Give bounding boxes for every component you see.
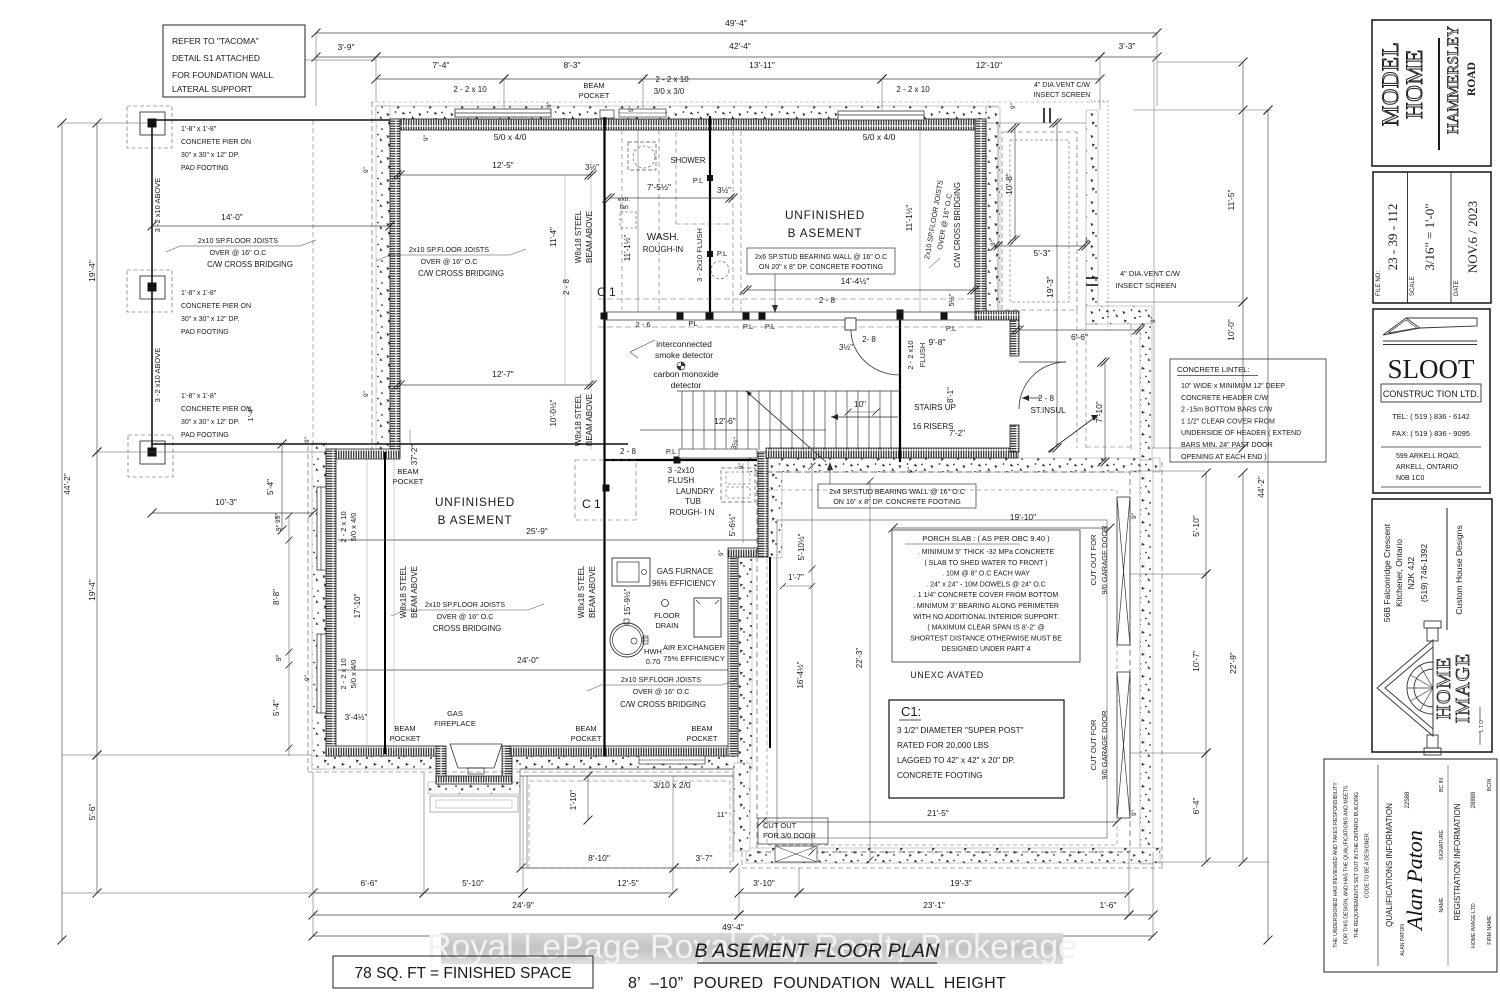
svg-text:ST.INSUL: ST.INSUL [1030,406,1066,415]
post C1 top [601,313,608,320]
svg-text:CONCRETE PIER ON: CONCRETE PIER ON [181,406,251,413]
svg-text:2x10 SP.FLOOR JOISTS: 2x10 SP.FLOOR JOISTS [409,245,489,254]
title block: file/scale/date [1373,172,1491,303]
svg-text:N2K 4J2: N2K 4J2 [1406,556,1416,589]
svg-text:7'-4": 7'-4" [433,60,450,70]
st.insul door leaf [1019,361,1066,363]
concrete lintel note box [1170,359,1326,462]
dim 11-5 right [1242,62,1244,302]
svg-text:3'-10": 3'-10" [753,878,775,888]
extension line x1154 [1153,62,1155,448]
dim 44-2 left [61,123,63,940]
svg-text:44'-2": 44'-2" [1256,476,1266,498]
svg-text:CONCRETE PIER ON: CONCRETE PIER ON [181,139,251,146]
wash dashed partition [658,130,660,310]
bearing wall posts [677,313,684,320]
svg-text:WITH NO ADDITIONAL INTERIOR SU: WITH NO ADDITIONAL INTERIOR SUPPORT. [913,614,1059,621]
dim 12-6 stairs [640,429,826,431]
svg-text:C/W CROSS BRIDGING: C/W CROSS BRIDGING [207,260,293,269]
footing band right jog [768,458,782,558]
svg-text:49'-4": 49'-4" [725,18,747,28]
svg-text:2 - 2 x 10: 2 - 2 x 10 [339,658,348,689]
svg-text:BEAM ABOVE: BEAM ABOVE [585,394,594,446]
footing band porch bottom [1086,306,1152,324]
dim 12-7 [400,384,592,386]
footing band south wall / garage top [748,458,1160,472]
svg-text:CONCRETE FOOTING: CONCRETE FOOTING [897,771,983,780]
stair door arc (2-8) [845,318,856,330]
window 5/0x4/0 top right [838,111,924,120]
svg-text:PAD FOOTING: PAD FOOTING [181,329,229,336]
svg-text:SIGNATURE: SIGNATURE [1439,830,1445,860]
svg-text:1'-10": 1'-10" [569,790,578,811]
svg-text:TEL: ( 519 ) 836 - 6142: TEL: ( 519 ) 836 - 6142 [1392,412,1470,421]
svg-text:P.L: P.L [717,249,727,258]
svg-text:22'-9": 22'-9" [1228,652,1238,674]
laundry tub dashed symbol [721,468,755,502]
top extension verticals [315,33,317,106]
svg-text:11'-4": 11'-4" [549,227,558,247]
dim row 7-4 8-3 13-11 12-10 [376,78,504,80]
svg-text:19'-4": 19'-4" [87,579,97,601]
svg-text:. MINIMUM 5" THICK -32 MPa CO: . MINIMUM 5" THICK -32 MPa CONCRETE [918,549,1054,556]
arrow from note box [774,274,776,312]
svg-text:9": 9" [546,101,553,108]
svg-text:6'-6": 6'-6" [1071,332,1088,342]
svg-text:24'-0": 24'-0" [517,655,539,665]
2x4 bearing wall note box [818,484,976,508]
svg-text:9": 9" [1085,236,1092,243]
svg-text:9": 9" [363,390,370,397]
svg-text:IMAGE: IMAGE [1452,653,1474,724]
svg-text:HWH: HWH [644,647,662,656]
svg-text:11": 11" [717,810,728,819]
svg-text:ON 20" x 8" DP. CONCRET: ON 20" x 8" DP. CONCRETE FOOTING [759,264,883,271]
flush beam outline right of post [679,449,757,458]
svg-text:extr.: extr. [618,196,630,203]
svg-text:2x10 SP.FLOOR JOISTS: 2x10 SP.FLOOR JOISTS [621,675,701,684]
svg-text:POCKET: POCKET [579,91,610,100]
svg-text:44'-2": 44'-2" [62,473,72,495]
footing band fireplace [428,782,520,794]
concrete pier 2 [127,270,172,312]
garage inner rect [777,520,1107,838]
svg-text:3/10 x 2/0: 3/10 x 2/0 [653,780,691,790]
svg-text:BCIN: BCIN [1487,779,1493,792]
svg-text:. 24" x 24" - 10M DOWELS @ 24": . 24" x 24" - 10M DOWELS @ 24" O.C [926,581,1046,588]
svg-text:CONCRETE PIER ON: CONCRETE PIER ON [181,303,251,310]
svg-text:BEAM ABOVE: BEAM ABOVE [588,566,597,618]
footing band garage bottom [746,848,1160,863]
concrete pier 3 [128,435,173,477]
svg-text:16'-4½": 16'-4½" [796,661,805,688]
svg-text:REGISTRATION INFORMATION: REGISTRATION INFORMATION [1453,803,1462,920]
svg-text:8'-1": 8'-1" [946,387,955,403]
footing band bottom left [312,756,444,769]
window left wall upper (5/0x4/0) [317,487,326,570]
dim 8-10 3-7 row [521,867,674,869]
stairwell treads [677,390,900,392]
svg-text:9'-8": 9'-8" [929,337,946,347]
dim 6-6 entry [1019,329,1140,331]
svg-text:QUALIFICATIONS INFORMATION: QUALIFICATIONS INFORMATION [1385,803,1394,927]
garage door X upper [1117,497,1130,645]
svg-text:9": 9" [423,134,430,141]
leader from note box [305,59,376,61]
svg-text:3 -2 x10 ABOVE: 3 -2 x10 ABOVE [153,348,162,403]
svg-text:C/W CROSS BRIDGING: C/W CROSS BRIDGING [418,269,504,278]
svg-text:CROSS BRIDGING: CROSS BRIDGING [433,624,501,633]
svg-text:5/0 x 4/0: 5/0 x 4/0 [494,132,527,142]
wall fireplace bottom [436,776,512,784]
svg-text:RATED FOR 20,000 LBS: RATED FOR 20,000 LBS [897,741,989,750]
footing band top [376,106,998,119]
svg-text:DATE: DATE [1454,280,1460,296]
home image logo [1377,621,1441,755]
garage outer dashed [757,472,1130,852]
footing band right wall upper [986,107,1000,312]
dim 25-9 [338,539,757,541]
svg-text:10": 10" [854,400,866,409]
post beam x710 bottom [707,313,714,320]
svg-text:13'-11": 13'-11" [749,60,775,70]
dim 7-10 entry [1104,362,1106,462]
dim 5-4 rotated [281,444,283,530]
svg-text:MODEL: MODEL [1378,42,1403,126]
svg-text:POCKET: POCKET [687,734,718,743]
svg-text:CONCRETE HEADER C/W: CONCRETE HEADER C/W [1181,394,1268,402]
svg-text:3 - 2x10 FLUSH: 3 - 2x10 FLUSH [695,228,704,282]
svg-text:42'-4": 42'-4" [729,41,751,51]
post C1 lower [603,485,610,492]
dim 21-5 [762,821,1117,823]
window left wall lower (5/0x4/0) [317,634,326,713]
wall stair jog [975,311,1019,320]
svg-text:9": 9" [718,549,725,556]
bottom porch outline [520,768,734,770]
svg-text:14'-4½": 14'-4½" [841,276,870,286]
svg-text:UNFINISHED: UNFINISHED [785,208,865,222]
svg-text:REFER TO "TACOMA": REFER TO "TACOMA" [172,36,259,46]
svg-text:C1:: C1: [901,704,921,719]
svg-text:C 1: C 1 [582,497,601,511]
dashed drain circle [711,261,729,279]
svg-text:FOR FOUNDATION WALL: FOR FOUNDATION WALL [172,70,273,80]
footing dashed outline left [307,446,309,772]
C1 note box [889,700,1064,798]
svg-text:2 - 2 x 10: 2 - 2 x 10 [453,85,487,94]
svg-text:OVER @ 16" O.C: OVER @ 16" O.C [421,257,478,266]
svg-text:DETAIL S1 ATTACHED: DETAIL S1 ATTACHED [172,53,260,63]
svg-text:9": 9" [907,466,914,473]
concrete pier 1 [127,106,172,148]
svg-text:5'-10": 5'-10" [1191,515,1201,537]
svg-text:HOME IMAGE LTD.: HOME IMAGE LTD. [1471,902,1477,948]
svg-text:NAME: NAME [1439,897,1445,913]
svg-text:5'-10": 5'-10" [462,878,484,888]
title block: qualifications [1324,759,1497,972]
svg-text:OPENING AT EACH END ): OPENING AT EACH END ) [1181,453,1267,461]
finished space box [333,956,593,988]
svg-text:8'-3": 8'-3" [564,60,581,70]
svg-text:5/0 x 4/0: 5/0 x 4/0 [349,513,358,542]
garage right dashed [1161,462,1163,868]
svg-text:17'-10": 17'-10" [353,593,362,618]
svg-text:Alan Paton: Alan Paton [1402,830,1427,932]
svg-text:LAUNDRY: LAUNDRY [676,487,715,496]
svg-text:LATERAL SUPPORT: LATERAL SUPPORT [172,84,252,94]
wall stair right lower [1010,425,1019,452]
svg-text:28889: 28889 [1471,791,1477,808]
cut out 3/0 door box [758,818,828,844]
svg-text:3'-9": 3'-9" [338,42,355,52]
svg-text:12'-7": 12'-7" [492,369,514,379]
st.insul arrow [1022,397,1040,399]
svg-text:W8x18 STEEL: W8x18 STEEL [574,393,583,446]
svg-text:P.L: P.L [666,447,676,456]
svg-text:7'-5½": 7'-5½" [647,182,671,192]
garage inner dashed rect [767,490,1117,845]
steel beam right lower x770 [769,557,771,748]
svg-text:7'-10": 7'-10" [1094,401,1104,423]
window 5/0x4/0 top left [455,109,551,117]
svg-text:ROAD: ROAD [1466,62,1478,96]
svg-text:CUT OUT FOR: CUT OUT FOR [1089,719,1098,771]
wall bottom right segment [510,746,738,756]
extension line y110 right [1133,109,1272,111]
title block: sloot construction [1373,309,1490,493]
svg-text:CUT OUT: CUT OUT [763,821,797,830]
svg-text:23 - 39 - 112: 23 - 39 - 112 [1385,204,1400,271]
svg-text:BEAM: BEAM [691,724,712,733]
tacoma note box [163,25,305,97]
leader line [630,340,655,352]
footing dashed outline bottom [308,771,750,773]
svg-text:25'-9": 25'-9" [526,526,548,536]
svg-text:P.L: P.L [765,322,775,331]
window 3/10x2/0 in bottom wall [639,756,705,764]
svg-text:. 1 1/4" CONCRETE COVER FROM B: . 1 1/4" CONCRETE COVER FROM BOTTOM [914,592,1058,599]
svg-text:SHORTEST DISTANCE OTHERWISE MU: SHORTEST DISTANCE OTHERWISE MUST BE [910,635,1062,642]
pier beam lines [151,123,153,452]
svg-text:ARKELL, ONTARIO: ARKELL, ONTARIO [1396,464,1459,471]
dim 10-0 right [1242,302,1244,448]
dim 19-10 [893,527,1110,529]
svg-text:22'-3": 22'-3" [855,648,864,669]
svg-text:21'-5": 21'-5" [927,808,949,818]
svg-text:detector: detector [671,380,702,390]
steel beam stairs x900 [899,313,901,462]
svg-text:FIREPLACE: FIREPLACE [434,719,476,728]
title block: model home [1372,20,1491,166]
svg-text:POCKET: POCKET [390,734,421,743]
svg-text:2x6 SP.STUD BEARING WALL @: 2x6 SP.STUD BEARING WALL @ 16" O.C [755,254,887,261]
5-6.5 dim line [742,463,744,543]
svg-text:3½": 3½" [839,343,853,352]
svg-text:DRAIN: DRAIN [655,621,678,630]
svg-text:9": 9" [1010,102,1017,109]
diagonal arrow to porch [1048,415,1098,452]
svg-text:WASH.: WASH. [647,232,679,243]
svg-text:DESIGNED UNDER PART 4: DESIGNED UNDER PART 4 [941,646,1030,653]
svg-text:2 - 2 x 10: 2 - 2 x 10 [896,85,930,94]
wall bottom left segment [326,746,438,756]
svg-text:fan: fan [619,204,628,211]
svg-text:SCALE: SCALE [1410,276,1416,296]
svg-text:HAMMERSLEY: HAMMERSLEY [1445,26,1462,135]
stairs up arrow diagonal [746,391,826,462]
svg-text:THE UNDERSIGNED HAS REVIEWE: THE UNDERSIGNED HAS REVIEWED AND TAKES R… [1333,782,1339,948]
svg-text:W8x18 STEEL: W8x18 STEEL [399,565,408,618]
svg-text:14'-0": 14'-0" [221,212,243,222]
svg-text:9": 9" [363,166,370,173]
left horizontal extensions [62,122,148,124]
right horizontal extensions lower [1130,470,1206,472]
svg-text:1'-4": 1'-4" [246,406,255,421]
svg-text:INSECT SCREEN: INSECT SCREEN [1034,92,1091,99]
svg-text:AIR EXCHANGER: AIR EXCHANGER [663,643,726,652]
svg-text:N0B 1C0: N0B 1C0 [1396,475,1425,482]
svg-text:BEAM: BEAM [394,724,415,733]
wall jog lower right [728,548,768,557]
svg-text:BEAM: BEAM [583,81,604,90]
floor drain [662,600,669,607]
svg-text:30" x 30" x 12" DP.: 30" x 30" x 12" DP. [181,152,239,159]
svg-text:FOR THIS DESIGN, AND HAS: FOR THIS DESIGN, AND HAS THE QUALIFICATI… [1344,785,1350,944]
footing band entry side [1140,324,1152,460]
vent in porch right wall [1086,277,1098,279]
dim 7-5.5 [610,197,733,199]
svg-text:2x4 SP.STUD BEARING WALL @: 2x4 SP.STUD BEARING WALL @ 16" O.C [829,487,965,496]
laundry dashed partition (C1 box) [575,460,636,520]
svg-text:POCKET: POCKET [393,477,424,486]
svg-text:B ASEMENT FLOOR PLAN: B ASEMENT FLOOR PLAN [695,940,941,962]
steel beam C1 vertical x604 [603,117,605,756]
porch dim 10-8 [1014,128,1016,240]
svg-text:30" x 30" x 12" DP.: 30" x 30" x 12" DP. [181,419,239,426]
svg-text:12'-10": 12'-10" [976,60,1002,70]
svg-text:4" DIA.VENT C/W: 4" DIA.VENT C/W [1034,82,1090,89]
svg-text:CODE TO BE A DESIGNER.: CODE TO BE A DESIGNER. [1365,832,1371,898]
svg-text:ON 16" x 8" DP. CONCRETE: ON 16" x 8" DP. CONCRETE FOOTING [833,497,961,506]
svg-text:FAX: ( 519 ) 836 - 9095: FAX: ( 519 ) 836 - 9095 [1392,429,1470,438]
porch dashed rect [1002,132,1077,310]
svg-text:5'-6½": 5'-6½" [728,514,737,537]
svg-text:( MAXIMUM CLEAR SPAN IS 8'-2": ( MAXIMUM CLEAR SPAN IS 8'-2" @ [927,625,1044,632]
wall left lower [326,449,336,756]
svg-text:. 10M @ 8" O.C EACH WAY: . 10M @ 8" O.C EACH WAY [942,571,1030,578]
svg-text:interconnected: interconnected [656,339,712,349]
double slash ticks on interior dims [393,171,402,180]
svg-text:6'-4": 6'-4" [1191,798,1201,815]
bearing wall note box [747,248,895,274]
svg-text:C/W CROSS BRIDGING: C/W CROSS BRIDGING [620,700,706,709]
svg-text:NOV.6 / 2023: NOV.6 / 2023 [1465,201,1480,273]
dim 5-6 left [96,755,98,893]
extension line x920 [919,123,921,311]
svg-text:CONCRETE LINTEL:: CONCRETE LINTEL: [1177,365,1250,374]
svg-text:75% EFFICIENCY: 75% EFFICIENCY [663,654,725,663]
wall jog left [326,449,400,459]
wash partition solid [637,130,639,312]
dim 12-5 [400,174,592,176]
shower dashed pan [628,142,656,170]
svg-text:4" DIA.VENT C/W: 4" DIA.VENT C/W [1120,269,1181,278]
air exchanger [694,598,721,637]
gas fireplace symbol [450,744,502,768]
svg-text:10'-0": 10'-0" [1226,319,1236,341]
dim chain right lower: 5-10 / 10-7 / 6-4 [1205,473,1207,574]
steel beam left lower x385 [384,452,386,754]
svg-text:10'-8": 10'-8" [1004,173,1014,195]
svg-text:LAGGED TO 42" x 42" x: LAGGED TO 42" x 42" x 20" DP. [897,756,1015,765]
dim 14-0 [152,225,390,227]
svg-text:2 - 2 x 10: 2 - 2 x 10 [655,75,689,84]
svg-text:2 - 8: 2 - 8 [1038,394,1055,403]
footing band left upper [376,106,390,456]
svg-text:19'-3": 19'-3" [950,878,972,888]
svg-text:3/16" = 1'-0": 3/16" = 1'-0" [1422,203,1437,270]
flush beam dashed envelope [732,123,734,311]
svg-text:B ASEMENT: B ASEMENT [438,513,513,527]
left inner vertical dim chain [288,516,290,756]
svg-text:BEAM ABOVE: BEAM ABOVE [585,211,594,263]
svg-text:56B Falconridge Crescent: 56B Falconridge Crescent [1382,523,1392,622]
wall south (garage top) [766,448,1018,458]
footing band garage right [1140,460,1153,864]
svg-text:11'-1½": 11'-1½" [905,205,914,232]
bottom row 3: 24-9 23-1 1-6 [313,914,739,916]
porch dim 5-3 [998,245,1086,247]
svg-text:6'-6": 6'-6" [361,878,378,888]
steel beam horizontal y460 [604,459,757,461]
svg-text:P.L: P.L [693,176,703,185]
svg-text:W8x18 STEEL: W8x18 STEEL [574,210,583,263]
wall right upper [975,119,986,319]
bearing wall dashed footing [598,298,982,300]
svg-text:0.70: 0.70 [646,657,661,666]
svg-text:3½": 3½" [717,186,731,195]
svg-text:FLUSH: FLUSH [668,476,694,485]
svg-text:3'-7": 3'-7" [696,853,713,863]
svg-text:Kitchener, Ontario: Kitchener, Ontario [1394,539,1404,607]
svg-text:9": 9" [1150,316,1157,323]
svg-text:C 1: C 1 [597,285,616,299]
svg-text:19'-3": 19'-3" [1045,276,1055,298]
svg-text:3 1/2" DIAMETER "SUPER POST": 3 1/2" DIAMETER "SUPER POST" [897,726,1024,735]
dim 19-4 lower left [96,452,98,755]
svg-text:STAIRS UP: STAIRS UP [914,403,956,412]
post PL on beam x710 [707,175,713,181]
right extensions [1157,61,1243,63]
svg-text:3/0 x 3/0: 3/0 x 3/0 [654,87,685,96]
svg-text:9": 9" [304,674,311,681]
svg-text:OVER @ 16" O.C: OVER @ 16" O.C [633,687,690,696]
svg-text:5/0 x 4/0: 5/0 x 4/0 [863,132,896,142]
svg-text:UNEXC AVATED: UNEXC AVATED [910,670,984,680]
dashed extension x313 [312,120,314,445]
svg-text:12'-5": 12'-5" [617,878,639,888]
svg-text:UNDERSIDE OF HEADER ( EXTE: UNDERSIDE OF HEADER ( EXTEND [1181,429,1301,437]
svg-text:ROUGH- I N: ROUGH- I N [670,508,715,517]
svg-text:599 ARKELL ROAD,: 599 ARKELL ROAD, [1396,453,1460,460]
svg-text:9": 9" [304,436,311,443]
svg-text:11'-1½": 11'-1½" [623,235,632,262]
dashed line from vent [1107,101,1109,330]
svg-text:1 1/2" CLEAR COVER FROM: 1 1/2" CLEAR COVER FROM [1181,417,1275,425]
svg-text:(519) 746-1392: (519) 746-1392 [1419,544,1429,602]
svg-text:10'-0½": 10'-0½" [549,399,558,426]
